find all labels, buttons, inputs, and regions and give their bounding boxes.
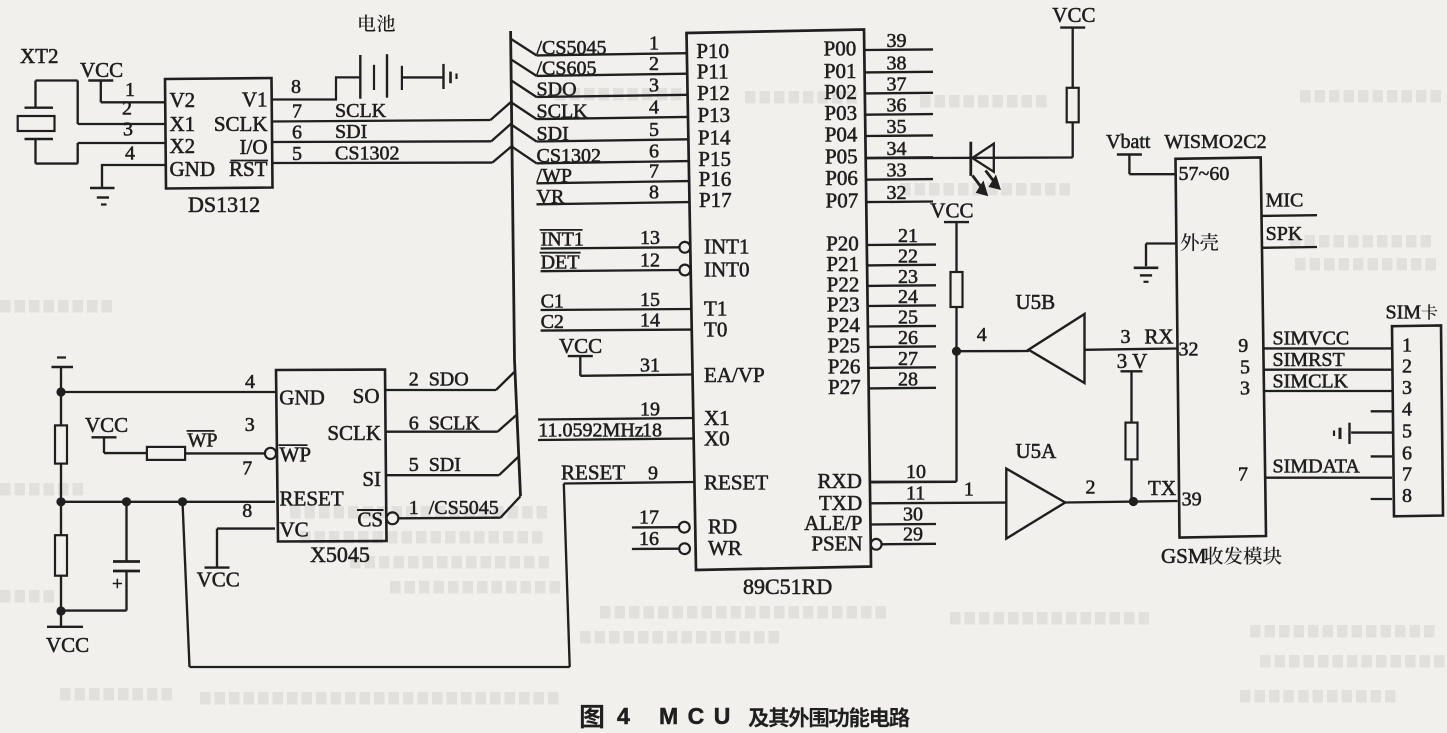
svg-text:P14: P14 bbox=[698, 125, 731, 149]
svg-text:P13: P13 bbox=[697, 103, 730, 127]
net X5045 GND pin 4 bbox=[61, 371, 275, 393]
pin 3 label (X5045 WP) bbox=[245, 414, 255, 436]
net SIMDATA pin 7 bbox=[1238, 456, 1392, 486]
svg-text:P17: P17 bbox=[699, 188, 732, 212]
power VCC (VC pin) bbox=[197, 568, 240, 592]
stub SIM pin 6 bbox=[1371, 455, 1392, 457]
svg-text:31: 31 bbox=[640, 355, 660, 377]
buffer U5A bbox=[1006, 439, 1065, 539]
svg-text:SIMDATA: SIMDATA bbox=[1273, 456, 1361, 478]
battery label 电池 bbox=[359, 14, 395, 32]
svg-text:WP: WP bbox=[280, 443, 312, 467]
wire VCC to V2 pin 1 bbox=[101, 101, 165, 103]
net RD pin 17 bbox=[632, 507, 690, 533]
wire 外壳 to ground bbox=[1146, 244, 1177, 267]
svg-text:2: 2 bbox=[122, 98, 132, 120]
svg-text:GND: GND bbox=[279, 386, 325, 410]
svg-text:5: 5 bbox=[649, 119, 659, 141]
svg-text:6: 6 bbox=[649, 141, 659, 163]
node VCC rail junction bbox=[56, 606, 65, 615]
resistor R4 (LED) bbox=[1067, 88, 1079, 158]
svg-text:8: 8 bbox=[242, 500, 252, 522]
svg-text:CS1302: CS1302 bbox=[335, 143, 399, 165]
net C1 pin 15 bbox=[541, 289, 692, 313]
svg-text:T0: T0 bbox=[704, 318, 727, 342]
SIM card label bbox=[1386, 302, 1438, 324]
node RESET rail junction bbox=[56, 497, 65, 506]
net C2 pin 14 bbox=[541, 310, 692, 333]
svg-text:17: 17 bbox=[639, 507, 659, 529]
net P02 pin 37 bbox=[824, 73, 933, 104]
caption 图4 MCU及其外围功能电路 bbox=[581, 703, 910, 729]
power VCC (DS1312 V2) bbox=[80, 58, 123, 102]
svg-text:8: 8 bbox=[649, 182, 659, 204]
svg-text:I/O: I/O bbox=[240, 135, 268, 159]
svg-text:RESET: RESET bbox=[561, 461, 625, 485]
svg-text:P00: P00 bbox=[824, 37, 857, 61]
net SDO (X5045 SO pin 2) bbox=[385, 369, 515, 391]
net P04 pin 35 bbox=[825, 116, 933, 147]
svg-text:15: 15 bbox=[640, 289, 660, 311]
svg-text:4: 4 bbox=[617, 703, 630, 729]
svg-text:VCC: VCC bbox=[1052, 3, 1095, 27]
net RESET pin 9 bbox=[561, 461, 694, 485]
svg-text:5: 5 bbox=[292, 143, 302, 165]
SIM card connector J1 bbox=[1392, 326, 1443, 517]
svg-text:VCC: VCC bbox=[559, 334, 602, 358]
svg-text:12: 12 bbox=[640, 250, 660, 272]
net SIMCLK pin 3 bbox=[1240, 371, 1392, 400]
power 3V bbox=[1117, 349, 1148, 423]
svg-text:2: 2 bbox=[1086, 477, 1096, 499]
capacitor C2 (SIM pin 5) bbox=[1334, 423, 1392, 444]
svg-text:P06: P06 bbox=[825, 166, 858, 190]
net P00 pin 39 bbox=[824, 30, 933, 61]
buffer U5B bbox=[1016, 290, 1085, 383]
net P07 pin 32 bbox=[826, 182, 933, 213]
svg-text:MCU: MCU bbox=[659, 703, 740, 729]
svg-text:4: 4 bbox=[977, 324, 987, 346]
wire GND pin 4 bbox=[101, 164, 165, 166]
net /CS605 to P11 pin 2 bbox=[511, 53, 687, 79]
svg-text:CS: CS bbox=[357, 508, 383, 532]
RTC U-DS1312 bbox=[165, 78, 273, 217]
power Vbatt bbox=[1106, 131, 1151, 174]
net P26 pin 27 bbox=[828, 348, 936, 379]
svg-text:4: 4 bbox=[649, 96, 659, 118]
net VR to P17 pin 8 bbox=[537, 182, 690, 208]
svg-text:2: 2 bbox=[649, 53, 659, 75]
svg-text:6: 6 bbox=[292, 122, 302, 144]
svg-text:3: 3 bbox=[1121, 326, 1131, 348]
net DET pin 12 bbox=[540, 250, 691, 276]
svg-text:SIMRST: SIMRST bbox=[1273, 349, 1345, 371]
svg-text:V2: V2 bbox=[170, 88, 196, 112]
svg-text:RXD: RXD bbox=[818, 469, 862, 493]
net TX (U5A pin 2 to GSM 39) bbox=[1065, 476, 1177, 506]
crystal value 11.0592MHz bbox=[538, 420, 643, 442]
svg-text:14: 14 bbox=[640, 310, 660, 332]
svg-text:SDO: SDO bbox=[429, 369, 469, 391]
svg-text:GSM: GSM bbox=[1161, 544, 1207, 568]
svg-text:1: 1 bbox=[964, 479, 974, 501]
svg-text:5: 5 bbox=[409, 454, 419, 476]
capacitor C1 bbox=[61, 497, 140, 610]
svg-text:SI: SI bbox=[362, 467, 381, 491]
svg-text:P27: P27 bbox=[828, 375, 861, 399]
net P23 pin 24 bbox=[827, 286, 936, 317]
EEPROM U-X5045 bbox=[276, 370, 387, 568]
net SCLK to P13 pin 4 bbox=[511, 96, 688, 122]
net P27 pin 28 bbox=[828, 368, 936, 399]
ground (X5045) bbox=[52, 358, 74, 393]
net SIMVCC pin 9 bbox=[1238, 328, 1392, 358]
svg-text:GND: GND bbox=[170, 157, 216, 181]
stub SIM pin 8 bbox=[1371, 498, 1392, 500]
net X0 pin 18 bbox=[538, 420, 694, 442]
svg-text:7: 7 bbox=[1238, 464, 1248, 486]
svg-text:SIMVCC: SIMVCC bbox=[1273, 328, 1350, 350]
ground (DS1312) bbox=[90, 165, 115, 205]
wire crystal to X1 bbox=[77, 81, 79, 125]
net /CS5045 (X5045 CS pin 1) bbox=[387, 496, 521, 524]
resistor R1 bbox=[55, 392, 67, 502]
svg-text:11: 11 bbox=[906, 483, 925, 505]
node U5B junction bbox=[952, 347, 961, 356]
svg-text:RESET: RESET bbox=[280, 487, 344, 511]
net SCLK (X5045 pin 6) bbox=[385, 413, 517, 435]
svg-text:X1: X1 bbox=[170, 112, 196, 136]
svg-text:7: 7 bbox=[1402, 464, 1412, 486]
svg-text:10: 10 bbox=[906, 461, 926, 483]
net P24 pin 25 bbox=[827, 307, 936, 338]
wire V1 pin 8 to battery bbox=[272, 76, 361, 100]
svg-text:RD: RD bbox=[708, 515, 737, 539]
GSM module U-WISMO2C2 bbox=[1161, 131, 1282, 568]
svg-text:SDI: SDI bbox=[335, 121, 367, 143]
net CS1302 (DS1312) bbox=[272, 143, 514, 166]
svg-text:3: 3 bbox=[1240, 378, 1250, 400]
svg-text:3: 3 bbox=[245, 414, 255, 436]
svg-text:4: 4 bbox=[125, 143, 135, 165]
svg-text:16: 16 bbox=[639, 528, 659, 550]
net P06 pin 33 bbox=[825, 160, 933, 191]
svg-text:57~60: 57~60 bbox=[1179, 163, 1230, 185]
net SPK bbox=[1262, 223, 1317, 248]
pin 4 label bbox=[125, 143, 135, 165]
resistor R2 bbox=[55, 502, 67, 611]
net SDI (DS1312) bbox=[272, 121, 513, 144]
svg-text:VCC: VCC bbox=[46, 633, 89, 657]
pin 2 label bbox=[122, 98, 132, 120]
svg-text:3: 3 bbox=[649, 74, 659, 96]
net X5045 VC bbox=[217, 529, 275, 568]
svg-text:VCC: VCC bbox=[80, 58, 123, 82]
power VCC (WP pullup) bbox=[85, 413, 128, 453]
svg-text:9: 9 bbox=[648, 463, 658, 485]
svg-text:RX: RX bbox=[1144, 325, 1173, 349]
svg-text:/CS5045: /CS5045 bbox=[429, 497, 499, 519]
svg-text:7: 7 bbox=[292, 101, 302, 123]
LED D1 bbox=[971, 142, 1000, 196]
net P20 pin 21 bbox=[826, 225, 936, 256]
svg-text:X5045: X5045 bbox=[310, 542, 370, 567]
pin 7 label (X5045 WP) bbox=[242, 458, 252, 480]
pin 1 label bbox=[125, 79, 135, 101]
svg-text:SPK: SPK bbox=[1266, 223, 1303, 245]
svg-text:SCLK: SCLK bbox=[214, 112, 268, 136]
svg-text:WP: WP bbox=[188, 430, 218, 452]
svg-text:7: 7 bbox=[242, 458, 252, 480]
net P21 pin 22 bbox=[826, 245, 936, 276]
svg-text:Vbatt: Vbatt bbox=[1106, 131, 1151, 153]
svg-text:DS1312: DS1312 bbox=[188, 192, 260, 217]
net P01 pin 38 bbox=[824, 52, 933, 83]
svg-text:P04: P04 bbox=[825, 123, 858, 147]
net SIMRST pin 5 bbox=[1240, 349, 1392, 379]
svg-text:WISMO2C2: WISMO2C2 bbox=[1164, 131, 1266, 153]
svg-text:29: 29 bbox=[903, 524, 923, 546]
battery B1 bbox=[360, 54, 456, 98]
net U5B output pin 4 bbox=[957, 324, 1030, 351]
svg-text:X2: X2 bbox=[170, 134, 196, 158]
svg-text:SDI: SDI bbox=[429, 454, 461, 476]
net PSEN pin 29 bbox=[811, 524, 936, 556]
svg-text:6: 6 bbox=[1402, 443, 1412, 465]
svg-text:5: 5 bbox=[1402, 421, 1412, 443]
svg-text:32: 32 bbox=[1179, 339, 1199, 361]
svg-text:4: 4 bbox=[245, 371, 255, 393]
node RESET-capacitor junction bbox=[178, 497, 187, 506]
svg-text:U5A: U5A bbox=[1016, 439, 1058, 463]
ground (GSM case) bbox=[1134, 268, 1159, 282]
svg-text:U5B: U5B bbox=[1016, 290, 1056, 314]
svg-text:RESET: RESET bbox=[704, 471, 768, 495]
svg-text:1: 1 bbox=[409, 497, 419, 519]
svg-text:+: + bbox=[112, 574, 123, 595]
svg-text:VCC: VCC bbox=[197, 568, 240, 592]
svg-text:SCLK: SCLK bbox=[327, 421, 381, 445]
net X5045 RESET pin 8 bbox=[61, 500, 275, 522]
crystal XT2 bbox=[18, 44, 78, 164]
net WR pin 16 bbox=[632, 528, 690, 554]
net CS1302 to P15 pin 6 bbox=[512, 141, 689, 167]
power VCC (LED) bbox=[1052, 3, 1095, 88]
svg-text:MIC: MIC bbox=[1266, 190, 1304, 212]
power VCC (RXD pullup) bbox=[930, 199, 973, 273]
svg-text:1: 1 bbox=[649, 33, 659, 55]
net SDI to P14 pin 5 bbox=[512, 119, 689, 145]
svg-text:INT1: INT1 bbox=[704, 235, 750, 259]
svg-text:VC: VC bbox=[280, 518, 309, 542]
svg-text:VCC: VCC bbox=[930, 199, 973, 223]
svg-text:X0: X0 bbox=[704, 427, 730, 451]
node GND rail junction bbox=[56, 387, 65, 396]
wire crystal to X1 pin 2 bbox=[78, 123, 165, 125]
svg-text:3 V: 3 V bbox=[1117, 349, 1148, 373]
svg-text:2: 2 bbox=[409, 369, 419, 391]
svg-text:5: 5 bbox=[1240, 357, 1250, 379]
net INT1 pin 13 bbox=[540, 227, 691, 253]
svg-text:39: 39 bbox=[1182, 489, 1202, 511]
svg-text:7: 7 bbox=[649, 161, 659, 183]
bus (signal bundle) bbox=[511, 31, 521, 496]
svg-text:8: 8 bbox=[291, 76, 301, 98]
svg-text:9: 9 bbox=[1238, 335, 1248, 357]
resistor R6 (3V) bbox=[1126, 423, 1138, 502]
wire Vbatt to 57~60 bbox=[1129, 173, 1176, 175]
wire RXD riser bbox=[870, 481, 957, 483]
net P25 pin 26 bbox=[827, 327, 936, 358]
resistor R5 bbox=[951, 272, 963, 482]
net TXD pin 11 bbox=[819, 483, 1006, 516]
svg-text:3: 3 bbox=[123, 119, 133, 141]
net /WP to P16 pin 7 bbox=[537, 161, 690, 187]
power VCC (EA/VP) bbox=[559, 334, 602, 376]
svg-text:INT0: INT0 bbox=[704, 258, 750, 282]
svg-text:XT2: XT2 bbox=[20, 44, 59, 68]
svg-text:PSEN: PSEN bbox=[811, 532, 862, 556]
svg-text:SO: SO bbox=[353, 384, 380, 408]
stub SIM pin 4 bbox=[1371, 410, 1392, 412]
svg-text:89C51RD: 89C51RD bbox=[743, 574, 832, 599]
svg-text:WR: WR bbox=[708, 536, 742, 560]
net P05 pin 34 bbox=[825, 138, 933, 169]
MCU U-89C51RD bbox=[687, 30, 872, 600]
net EA/VP pin 31 bbox=[580, 355, 692, 377]
net MIC bbox=[1262, 190, 1318, 216]
svg-text:V1: V1 bbox=[242, 88, 268, 112]
svg-text:3: 3 bbox=[1402, 377, 1412, 399]
net SDO to P12 pin 3 bbox=[511, 74, 687, 100]
svg-text:EA/VP: EA/VP bbox=[704, 363, 765, 387]
svg-text:4: 4 bbox=[1402, 399, 1412, 421]
svg-text:SIM: SIM bbox=[1386, 302, 1422, 324]
svg-text:8: 8 bbox=[1402, 485, 1412, 507]
power VCC (bottom rail) bbox=[46, 611, 89, 657]
svg-text:SIMCLK: SIMCLK bbox=[1273, 371, 1349, 393]
net WP label bbox=[187, 430, 218, 452]
net SDI (X5045 SI pin 5) bbox=[385, 454, 519, 476]
wire P05 pin 34 to LED bbox=[866, 156, 1073, 159]
svg-text:VCC: VCC bbox=[85, 413, 128, 437]
net U5B input pin 3 / RX bbox=[1085, 325, 1178, 350]
svg-text:13: 13 bbox=[640, 227, 660, 249]
svg-text:1: 1 bbox=[1402, 335, 1412, 357]
net RXD pin 10 bbox=[818, 461, 957, 493]
svg-text:P12: P12 bbox=[697, 81, 730, 105]
bubble X5045 WP bbox=[265, 448, 276, 459]
net P03 pin 36 bbox=[824, 95, 933, 126]
svg-text:TX: TX bbox=[1148, 476, 1176, 500]
svg-text:P07: P07 bbox=[826, 189, 859, 213]
net ALE/P pin 30 bbox=[804, 504, 936, 536]
pin 3 label bbox=[123, 119, 133, 141]
net X1 pin 19 bbox=[538, 399, 693, 421]
svg-text:P05: P05 bbox=[825, 144, 858, 168]
net /CS5045 to P10 pin 1 bbox=[511, 33, 687, 59]
net U5A input pin 1 bbox=[964, 479, 974, 501]
wire RESET loop bbox=[183, 484, 570, 668]
net SCLK (DS1312) bbox=[272, 100, 512, 123]
wire crystal to X2 pin 3 bbox=[78, 142, 165, 144]
net P22 pin 23 bbox=[827, 266, 936, 297]
svg-text:SCLK: SCLK bbox=[335, 100, 387, 122]
svg-text:2: 2 bbox=[1402, 356, 1412, 378]
svg-text:30: 30 bbox=[903, 504, 923, 526]
resistor R3 (WP) bbox=[104, 447, 264, 460]
